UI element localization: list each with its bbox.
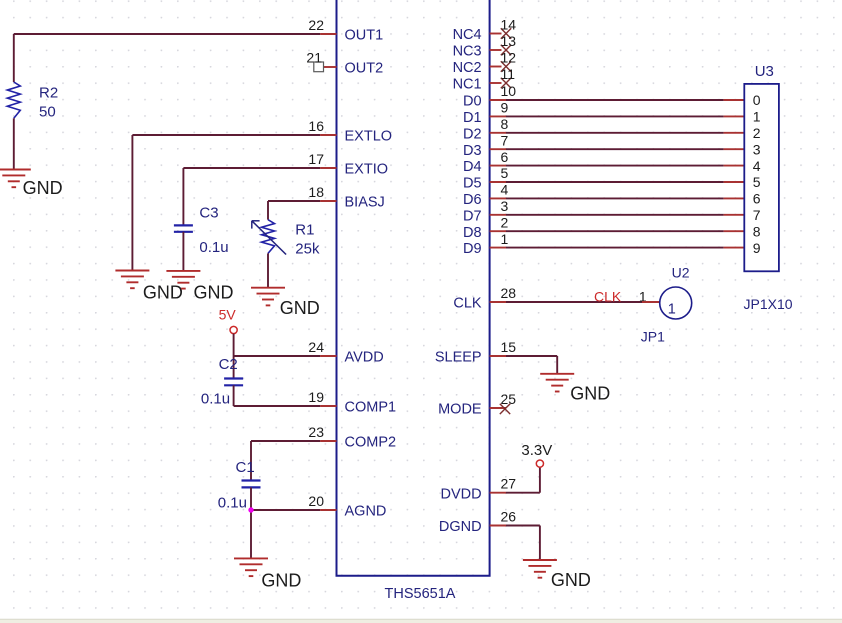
svg-text:COMP2: COMP2	[345, 435, 397, 451]
pin NC3 no-connect X	[501, 45, 511, 55]
wire EXTIO vertical to C3	[182, 168, 184, 225]
wire C1 to ground	[250, 487, 252, 558]
pin NC1 stub	[490, 82, 502, 84]
ground under R2	[0, 170, 31, 188]
op-amp/IC U1 THS5651A body	[337, 0, 490, 576]
svg-text:9: 9	[501, 100, 509, 116]
svg-text:6: 6	[501, 149, 509, 165]
pin D8 stub	[490, 230, 506, 232]
svg-text:2: 2	[501, 214, 509, 230]
pin SLEEP stub	[490, 355, 506, 357]
wire BIASJ vertical to R1	[267, 201, 269, 220]
wire OUT1 vertical to R2	[13, 34, 15, 82]
ground under EXTLO	[115, 271, 149, 289]
svg-text:19: 19	[308, 389, 324, 405]
pin D7 stub	[490, 214, 506, 216]
pin EXTIO stub	[320, 167, 336, 169]
wire DGND vertical	[539, 526, 541, 561]
svg-text:10: 10	[501, 83, 517, 99]
U3 pin stub row D6	[724, 197, 745, 199]
ground under C3	[166, 271, 200, 289]
pin NC3 stub	[490, 49, 502, 51]
svg-text:17: 17	[308, 151, 324, 167]
svg-text:1: 1	[753, 109, 761, 125]
svg-text:25k: 25k	[295, 240, 320, 257]
svg-text:THS5651A: THS5651A	[385, 586, 456, 602]
pin COMP2 stub	[320, 440, 336, 442]
svg-text:28: 28	[501, 285, 517, 301]
power port 3.3V circle	[536, 460, 543, 467]
svg-text:R1: R1	[295, 222, 314, 239]
wire net D6 from U1 to U3	[506, 197, 724, 199]
wire COMP1 horizontal	[234, 405, 321, 407]
pin D3 stub	[490, 148, 506, 150]
pin D4 stub	[490, 165, 506, 167]
svg-text:NC3: NC3	[453, 44, 482, 60]
U3 pin stub row D7	[724, 214, 745, 216]
svg-text:12: 12	[501, 50, 517, 66]
wire net D0 from U1 to U3	[506, 99, 724, 101]
wire OUT1 horizontal	[14, 33, 320, 35]
wire net D4 from U1 to U3	[506, 165, 724, 167]
svg-text:1: 1	[668, 301, 676, 317]
svg-text:26: 26	[501, 508, 517, 524]
wire net D1 from U1 to U3	[506, 115, 724, 117]
pin BIASJ stub	[320, 200, 336, 202]
U3 pin stub row D9	[724, 247, 745, 249]
svg-text:R2: R2	[39, 84, 58, 101]
svg-text:D1: D1	[463, 110, 482, 126]
svg-text:4: 4	[501, 182, 509, 198]
resistor R2	[7, 82, 20, 118]
svg-text:CLK: CLK	[594, 288, 622, 304]
wire BIASJ horizontal	[268, 200, 320, 202]
wire COMP2 horizontal	[251, 440, 320, 442]
svg-text:1: 1	[501, 231, 509, 247]
svg-text:U3: U3	[755, 63, 774, 80]
svg-text:24: 24	[308, 339, 324, 355]
wire EXTLO vertical	[131, 135, 133, 271]
svg-text:EXTIO: EXTIO	[345, 162, 389, 178]
svg-text:7: 7	[753, 207, 761, 223]
wire COMP2 vertical to C1	[250, 441, 252, 481]
pin CLK stub	[490, 301, 506, 303]
svg-text:C1: C1	[236, 459, 255, 476]
svg-text:GND: GND	[280, 298, 320, 318]
svg-text:3: 3	[753, 141, 761, 157]
svg-text:C2: C2	[219, 356, 238, 373]
svg-text:0: 0	[753, 92, 761, 108]
pin OUT2 stub	[324, 66, 337, 68]
svg-text:DVDD: DVDD	[441, 486, 482, 502]
pin NC2 stub	[490, 66, 502, 68]
pin OUT2 no-connect square	[314, 62, 324, 72]
capacitor C3	[174, 224, 193, 226]
wire R1 to ground	[267, 253, 269, 287]
svg-text:50: 50	[39, 104, 56, 121]
svg-text:CLK: CLK	[453, 296, 482, 312]
svg-text:25: 25	[501, 391, 517, 407]
ground under R1	[251, 288, 285, 306]
svg-text:COMP1: COMP1	[345, 400, 397, 416]
resistor R1 (variable)	[262, 220, 275, 254]
svg-text:GND: GND	[261, 571, 301, 591]
svg-text:D7: D7	[463, 208, 482, 224]
svg-text:6: 6	[753, 191, 761, 207]
bottom window edge strip	[0, 619, 842, 623]
svg-text:U2: U2	[672, 265, 690, 281]
pin MODE stub	[490, 407, 506, 409]
wire 5V to AVDD and C2	[233, 334, 235, 379]
svg-text:14: 14	[501, 17, 517, 33]
pin EXTLO stub	[320, 134, 336, 136]
pin D6 stub	[490, 197, 506, 199]
pin AVDD stub	[320, 355, 336, 357]
svg-text:3: 3	[501, 198, 509, 214]
svg-text:8: 8	[753, 223, 761, 239]
wire SLEEP vertical	[556, 356, 558, 374]
svg-text:5: 5	[501, 165, 509, 181]
svg-text:20: 20	[308, 493, 324, 509]
connector U2 (JP1) circle	[660, 287, 692, 319]
pin D5 stub	[490, 181, 506, 183]
wire DVDD vertical to 3.3V	[539, 467, 541, 493]
wire net D9 from U1 to U3	[506, 247, 724, 249]
svg-text:13: 13	[501, 33, 517, 49]
svg-text:15: 15	[501, 339, 517, 355]
svg-text:0.1u: 0.1u	[218, 495, 247, 512]
pin D0 stub	[490, 99, 506, 101]
svg-text:GND: GND	[23, 178, 63, 198]
svg-text:D3: D3	[463, 143, 482, 159]
U3 pin stub row D3	[724, 148, 745, 150]
svg-text:D9: D9	[463, 241, 482, 257]
wire DGND horizontal	[506, 525, 540, 527]
svg-text:GND: GND	[143, 283, 183, 303]
svg-text:SLEEP: SLEEP	[435, 350, 482, 366]
svg-text:D5: D5	[463, 176, 482, 192]
wire AGND horizontal	[251, 509, 320, 511]
svg-text:D2: D2	[463, 126, 482, 142]
wire SLEEP horizontal	[506, 355, 557, 357]
svg-text:BIASJ: BIASJ	[345, 195, 385, 211]
svg-text:22: 22	[308, 17, 324, 33]
capacitor C2	[224, 377, 243, 379]
pin DVDD stub	[490, 492, 506, 494]
svg-text:D6: D6	[463, 192, 482, 208]
svg-text:OUT1: OUT1	[345, 28, 384, 44]
svg-text:2: 2	[753, 125, 761, 141]
junction dot AGND/C1	[248, 507, 253, 512]
connector U3 JP1X10 body	[744, 84, 779, 271]
svg-text:NC4: NC4	[453, 27, 482, 43]
svg-text:5: 5	[753, 174, 761, 190]
svg-text:MODE: MODE	[438, 402, 482, 418]
wire DVDD horizontal	[506, 492, 540, 494]
U3 pin stub row D5	[724, 181, 745, 183]
pin NC2 no-connect X	[501, 61, 511, 71]
wire net D5 from U1 to U3	[506, 181, 724, 183]
svg-text:DGND: DGND	[439, 519, 482, 535]
svg-text:JP1X10: JP1X10	[744, 296, 793, 312]
U3 pin stub row D1	[724, 115, 745, 117]
U3 pin stub row D0	[724, 99, 745, 101]
U3 pin stub row D8	[724, 230, 745, 232]
pin NC4 stub	[490, 33, 502, 35]
svg-text:3.3V: 3.3V	[521, 442, 552, 459]
pin D2 stub	[490, 132, 506, 134]
U3 pin stub row D2	[724, 132, 745, 134]
wire C3 to ground	[182, 232, 184, 271]
R1 wiper arrow	[252, 221, 286, 255]
svg-text:5V: 5V	[219, 306, 237, 322]
pin NC1 no-connect X	[501, 78, 511, 88]
pin D1 stub	[490, 115, 506, 117]
wire CLK from U1	[506, 301, 642, 303]
wire net D8 from U1 to U3	[506, 230, 724, 232]
svg-text:7: 7	[501, 132, 509, 148]
svg-text:NC2: NC2	[453, 60, 482, 76]
svg-text:D4: D4	[463, 159, 482, 175]
wire R2 to ground	[13, 118, 15, 169]
svg-text:0.1u: 0.1u	[201, 391, 230, 408]
ground under DGND	[523, 560, 557, 578]
svg-text:NC1: NC1	[453, 77, 482, 93]
svg-text:D0: D0	[463, 94, 482, 110]
svg-text:C3: C3	[199, 205, 218, 222]
ground under SLEEP	[540, 374, 574, 392]
wire AVDD horizontal	[234, 355, 321, 357]
wire C2 to COMP1	[233, 385, 235, 406]
svg-text:GND: GND	[570, 384, 610, 404]
ground under C1	[234, 558, 268, 576]
svg-text:EXTLO: EXTLO	[345, 129, 393, 145]
pin MODE no-connect X	[500, 404, 510, 414]
wire net D7 from U1 to U3	[506, 214, 724, 216]
svg-text:AVDD: AVDD	[345, 350, 384, 366]
wire EXTIO horizontal	[183, 167, 320, 169]
capacitor C1	[242, 479, 261, 481]
svg-text:JP1: JP1	[641, 329, 665, 345]
svg-text:GND: GND	[551, 570, 591, 590]
svg-text:4: 4	[753, 158, 761, 174]
U2 pin stub	[642, 301, 660, 303]
wire EXTLO horizontal	[132, 134, 320, 136]
svg-text:GND: GND	[194, 283, 234, 303]
wire net D3 from U1 to U3	[506, 148, 724, 150]
svg-text:9: 9	[753, 240, 761, 256]
svg-text:27: 27	[501, 476, 517, 492]
U3 pin stub row D4	[724, 165, 745, 167]
pin COMP1 stub	[320, 405, 336, 407]
svg-text:16: 16	[308, 118, 324, 134]
svg-text:23: 23	[308, 424, 324, 440]
pin AGND stub	[320, 509, 336, 511]
pin DGND stub	[490, 525, 506, 527]
svg-text:0.1u: 0.1u	[199, 239, 228, 256]
svg-text:21: 21	[306, 50, 322, 66]
wire net D2 from U1 to U3	[506, 132, 724, 134]
svg-text:18: 18	[308, 184, 324, 200]
svg-text:D8: D8	[463, 225, 482, 241]
pin D9 stub	[490, 247, 506, 249]
svg-text:AGND: AGND	[345, 504, 387, 520]
pin NC4 no-connect X	[501, 28, 511, 38]
svg-text:8: 8	[501, 116, 509, 132]
svg-text:OUT2: OUT2	[345, 61, 384, 77]
pin OUT1 stub	[320, 33, 336, 35]
power port 5V circle	[230, 326, 237, 333]
svg-text:11: 11	[501, 66, 516, 82]
